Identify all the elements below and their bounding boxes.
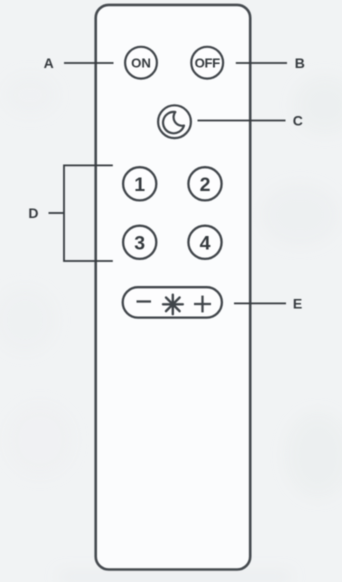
callout line A — [64, 62, 114, 64]
svg-text:E: E — [293, 295, 302, 311]
callout line B — [236, 62, 287, 64]
brightness asterisk — [163, 295, 183, 315]
button 1 — [123, 167, 156, 200]
button OFF — [191, 47, 223, 79]
button ON — [125, 47, 157, 79]
callout line C — [198, 120, 286, 122]
svg-text:C: C — [293, 112, 303, 128]
button dimmer pill — [123, 287, 222, 317]
callout line E — [234, 302, 286, 304]
button night (moon) — [158, 105, 191, 138]
svg-text:1: 1 — [134, 174, 145, 196]
svg-text:ON: ON — [131, 56, 151, 71]
remote body — [96, 5, 251, 570]
svg-text:3: 3 — [134, 232, 145, 254]
button 4 — [188, 226, 221, 259]
svg-text:A: A — [44, 55, 54, 71]
callout bracket D — [64, 165, 113, 261]
callout stub D — [49, 212, 65, 214]
button 2 — [188, 167, 221, 200]
svg-text:2: 2 — [200, 174, 211, 196]
svg-text:B: B — [295, 55, 305, 71]
svg-text:OFF: OFF — [195, 56, 221, 71]
plus symbol — [194, 303, 211, 305]
minus symbol — [137, 300, 152, 302]
svg-text:D: D — [28, 205, 38, 221]
button 3 — [123, 226, 156, 259]
svg-text:4: 4 — [200, 232, 211, 254]
